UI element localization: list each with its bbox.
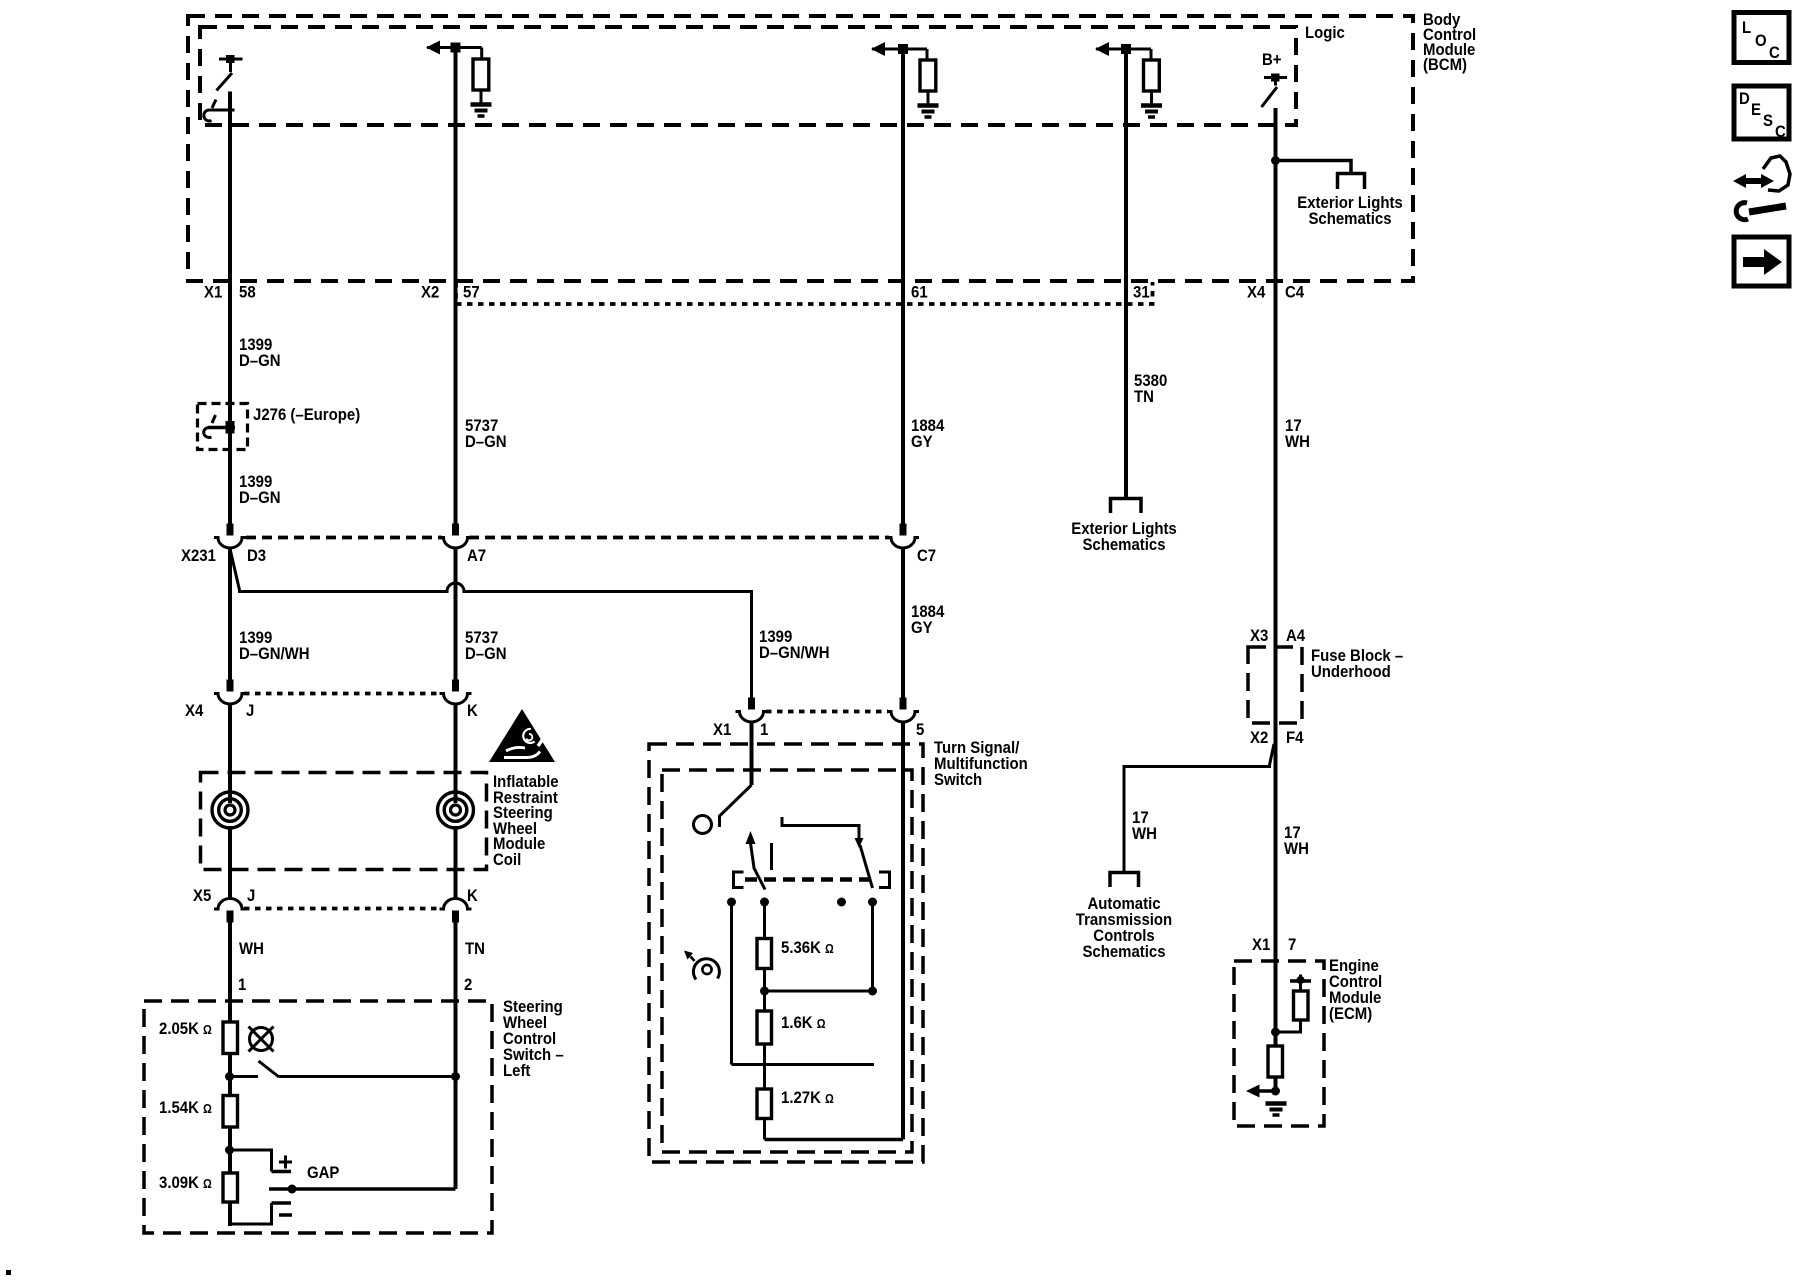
svg-text:(ECM): (ECM) — [1329, 1005, 1372, 1023]
svg-text:D–GN/WH: D–GN/WH — [239, 645, 310, 663]
svg-text:1: 1 — [760, 721, 768, 739]
right switch blade — [860, 845, 873, 888]
J276 splice dashed box — [198, 404, 248, 450]
connector X4 pin K — [440, 680, 472, 705]
svg-text:Underhood: Underhood — [1311, 663, 1391, 681]
label Automatic Transmission Controls Schematics — [1076, 895, 1172, 961]
ground symbol (col 3) — [918, 106, 939, 118]
svg-text:Schematics: Schematics — [1308, 210, 1391, 228]
steering wheel control switch dashed box — [144, 1001, 492, 1233]
wire 5.36K to tap — [763, 969, 766, 1012]
label Exterior Lights Schematics (top) — [1297, 194, 1403, 228]
svg-text:Logic: Logic — [1305, 24, 1345, 42]
GAP positive plate — [272, 1170, 292, 1174]
fuse block underhood dashed box — [1248, 647, 1302, 723]
label Fuse Block - Underhood — [1311, 647, 1403, 681]
ECM pull-up resistor — [1294, 991, 1309, 1020]
wire tap to right vertical — [765, 990, 873, 993]
label 17 WH branch — [1132, 809, 1157, 843]
wire pull-up resistor leads — [1276, 981, 1301, 1032]
svg-text:7: 7 — [1288, 936, 1296, 954]
pin label X1 7 (ECM) — [1252, 936, 1296, 954]
GAP negative plate — [272, 1201, 292, 1205]
BCM label — [1423, 11, 1476, 74]
ECM ground arrow — [1246, 1085, 1276, 1098]
icon box arrow — [1734, 237, 1789, 286]
svg-text:A4: A4 — [1286, 627, 1305, 645]
svg-text:J: J — [246, 702, 254, 720]
wire GAP negative lead — [230, 1203, 272, 1224]
svg-text:1.27K Ω: 1.27K Ω — [781, 1089, 834, 1107]
svg-text:(BCM): (BCM) — [1423, 56, 1467, 74]
wire col4 B+ vertical — [1274, 108, 1278, 1091]
icon box LOC — [1734, 13, 1789, 63]
ground symbol (col 2) — [471, 105, 492, 117]
connector X1 dotted line (turn signal) — [766, 710, 888, 714]
Body Control Module (BCM) outer dashed box — [188, 16, 1413, 281]
pull-down resistor (col 2) — [473, 59, 489, 90]
label circuit 1884 GY lower — [911, 603, 944, 637]
svg-text:5.36K Ω: 5.36K Ω — [781, 939, 834, 957]
connector X231 pin A7 — [440, 524, 472, 549]
resistor 1.54K — [223, 1096, 238, 1128]
wire 1.6K to 1.27K — [763, 1044, 766, 1089]
wire col2 coil to X5 — [454, 826, 458, 898]
right switch lead from pin1 circuit — [782, 817, 859, 840]
svg-text:X2: X2 — [421, 284, 439, 302]
wire col3 C7 to turn signal pin 5 — [901, 549, 905, 698]
svg-text:C: C — [1775, 123, 1786, 141]
svg-text:Schematics: Schematics — [1082, 536, 1165, 554]
node junction col4 to exterior lights branch — [1271, 156, 1280, 165]
lamp symbol — [249, 1027, 274, 1052]
resistor 5.36K — [757, 939, 772, 969]
wire col3 vertical upper — [901, 49, 905, 524]
connector X4 pin J — [214, 680, 246, 705]
svg-text:J276 (–Europe): J276 (–Europe) — [253, 406, 360, 424]
svg-text:B+: B+ — [1262, 51, 1282, 69]
svg-text:GAP: GAP — [307, 1164, 340, 1182]
pin label X2 F4 — [1250, 729, 1304, 747]
svg-text:58: 58 — [239, 284, 256, 302]
right switch arrow — [855, 838, 864, 848]
off-page connector exterior lights (top) — [1338, 174, 1365, 190]
svg-text:X1: X1 — [1252, 936, 1270, 954]
icon box DESC — [1734, 86, 1789, 141]
stalk contact circle — [694, 816, 712, 834]
Logic inner dashed box — [200, 27, 1296, 125]
label Engine Control Module (ECM) — [1329, 957, 1382, 1023]
svg-text:X1: X1 — [713, 721, 731, 739]
label circuit 5380 TN — [1134, 372, 1167, 406]
svg-text:Coil: Coil — [493, 851, 521, 869]
label circuit 17 WH upper — [1285, 417, 1310, 451]
node contact dot 1 — [727, 898, 736, 907]
svg-text:E: E — [1751, 101, 1761, 119]
pull-down resistor (col 31) — [1144, 60, 1160, 91]
node wiper dot — [288, 1185, 297, 1194]
label Turn Signal/Multifunction Switch — [934, 739, 1028, 789]
resistor 2.05K — [223, 1022, 238, 1054]
resistor 1.6K — [757, 1011, 772, 1044]
wire switch to col2 — [279, 1075, 456, 1078]
mechanical link bracket left — [734, 872, 744, 888]
label Inflatable Restraint Steering Wheel Module Coil — [493, 773, 559, 869]
inflatable restraint coil dashed box — [201, 773, 487, 870]
label circuit 5737 D-GN upper — [465, 417, 507, 451]
page corner dot — [6, 1270, 11, 1275]
wire 1.27K to bottom rail — [763, 1119, 766, 1140]
svg-text:A7: A7 — [467, 547, 486, 565]
wire branch D3 to turn signal pin 1 with hop over col2 — [231, 551, 752, 698]
svg-text:GY: GY — [911, 433, 933, 451]
svg-text:31: 31 — [1133, 284, 1150, 302]
mechanical link bracket right — [879, 872, 890, 888]
svg-text:K: K — [467, 702, 478, 720]
svg-text:Schematics: Schematics — [1082, 943, 1165, 961]
svg-text:WH: WH — [239, 940, 264, 958]
resistor 1.27K — [757, 1089, 772, 1119]
wire turn signal pin5 into box — [901, 722, 905, 1140]
pin label X1 58 — [204, 284, 256, 302]
svg-text:1: 1 — [238, 976, 246, 994]
wire col2 X5 to switch box — [454, 923, 458, 1077]
node ECM junction — [1271, 1028, 1280, 1037]
wire col1 X5 to switch box — [228, 923, 232, 1023]
connector X5 dotted line — [244, 907, 442, 911]
switch contact stub — [230, 1075, 259, 1078]
logic pull-down arrow line (col 3) — [871, 42, 927, 61]
pin label X2 57 — [421, 284, 480, 302]
connector X4 dotted line — [244, 692, 442, 696]
svg-text:J: J — [247, 887, 255, 905]
svg-text:WH: WH — [1285, 433, 1310, 451]
ECM ground symbol — [1266, 1104, 1287, 1116]
svg-text:S: S — [1763, 112, 1773, 130]
svg-text:X4: X4 — [185, 702, 203, 720]
coil spiral left — [212, 792, 248, 828]
connector X231 pin C7 — [887, 524, 919, 549]
label circuit 5737 D-GN lower — [465, 629, 507, 663]
connector group dotted outline pins 57-31 — [456, 282, 1153, 304]
svg-text:K: K — [467, 887, 478, 905]
left switch arrow — [746, 831, 756, 844]
wire col1 to GAP junction — [228, 1127, 232, 1173]
wire branch to automatic transmission — [1124, 744, 1274, 872]
label Steering Wheel Control Switch - Left — [503, 998, 564, 1080]
J276 splice symbol — [204, 415, 235, 437]
BCM output driver switch (col 1) — [204, 55, 243, 121]
node ECM ground junction — [1271, 1087, 1280, 1096]
turn signal stalk blade — [720, 785, 752, 827]
svg-text:C7: C7 — [917, 547, 936, 565]
label circuit 1399 D-GN upper — [239, 336, 281, 370]
svg-text:GY: GY — [911, 619, 933, 637]
node switch junction col2 — [451, 1072, 460, 1081]
svg-text:X5: X5 — [193, 887, 211, 905]
node switch junction col1 — [225, 1072, 234, 1081]
svg-text:Switch: Switch — [934, 771, 982, 789]
svg-text:D–GN/WH: D–GN/WH — [759, 644, 830, 662]
svg-text:57: 57 — [463, 284, 480, 302]
svg-text:O: O — [1755, 32, 1767, 50]
svg-text:3.09K Ω: 3.09K Ω — [159, 1174, 212, 1192]
left switch blade — [751, 843, 766, 890]
GAP wiper lead to col2 — [269, 1187, 456, 1191]
wire left tap horizontal — [732, 1063, 875, 1066]
icon special tools — [1733, 156, 1790, 220]
off-page connector exterior lights (col 31) — [1111, 499, 1142, 514]
wire col1 between resistors — [228, 1054, 232, 1096]
minus sign — [279, 1213, 292, 1217]
resistor lead to ground (col 2) — [480, 90, 483, 103]
label circuit 1884 GY upper — [911, 417, 944, 451]
svg-text:61: 61 — [911, 284, 928, 302]
svg-text:D–GN: D–GN — [239, 489, 281, 507]
wire col1 X4 to coil — [228, 704, 232, 804]
node tap dot middle — [760, 987, 769, 996]
off-page connector automatic transmission — [1110, 873, 1139, 888]
B+ feed switch (col 4) — [1262, 74, 1288, 108]
svg-text:X1: X1 — [204, 284, 222, 302]
wire GAP positive lead — [230, 1150, 272, 1172]
wire col 31 vertical — [1124, 49, 1128, 498]
svg-text:Left: Left — [503, 1062, 531, 1080]
wire col2 vertical upper — [454, 48, 458, 524]
ECM internal supply terminal — [1290, 975, 1311, 985]
svg-text:L: L — [1742, 19, 1751, 37]
svg-text:X231: X231 — [181, 547, 216, 565]
wire col1 BCM output vertical — [228, 92, 232, 524]
turn signal multifunction switch outer dashed box — [649, 744, 923, 1162]
wire col2 A7 to X4 — [454, 549, 458, 680]
pin label X4 C4 — [1247, 284, 1304, 302]
label circuit 1399 D-GN/WH col1 — [239, 629, 310, 663]
label 17 WH col4 — [1284, 824, 1309, 858]
svg-text:WH: WH — [1132, 825, 1157, 843]
svg-text:WH: WH — [1284, 840, 1309, 858]
svg-text:F4: F4 — [1286, 729, 1304, 747]
ground symbol (col 31) — [1141, 106, 1162, 118]
wire turn signal pin1 into box — [750, 722, 754, 785]
connector X231 dashed line — [246, 536, 889, 540]
wire bottom rail to pin5 — [765, 1138, 904, 1142]
svg-text:D–GN: D–GN — [239, 352, 281, 370]
resistor 3.09K — [223, 1173, 238, 1202]
svg-text:D–GN: D–GN — [465, 433, 507, 451]
switch blade — [259, 1061, 280, 1077]
logic pull-down arrow line (col 2) — [426, 41, 482, 61]
wire right vertical — [871, 902, 874, 991]
svg-text:5: 5 — [916, 721, 924, 739]
svg-text:1.54K Ω: 1.54K Ω — [159, 1099, 212, 1117]
turn signal multifunction switch inner dashed box — [662, 770, 912, 1152]
rotary detent icon — [684, 951, 719, 980]
svg-text:C4: C4 — [1285, 284, 1304, 302]
pin label X3 A4 — [1250, 627, 1305, 645]
svg-text:TN: TN — [465, 940, 485, 958]
connector X5 pin K — [440, 899, 472, 923]
svg-text:2: 2 — [464, 976, 472, 994]
node contact dot 4 — [868, 898, 877, 907]
svg-text:2.05K Ω: 2.05K Ω — [159, 1020, 212, 1038]
svg-text:D–GN: D–GN — [465, 645, 507, 663]
coil spiral right — [438, 792, 474, 828]
node GAP junction — [225, 1146, 234, 1155]
wire col2 lower vertical — [454, 1077, 458, 1190]
wire branch to exterior lights schematics — [1276, 161, 1352, 173]
engine control module dashed box — [1234, 961, 1324, 1126]
wire resistor chain upper — [763, 902, 766, 939]
wire col1 resistor to bottom — [228, 1202, 232, 1226]
label Exterior Lights Schematics (col 31) — [1071, 520, 1177, 554]
svg-text:TN: TN — [1134, 388, 1154, 406]
wire col2 X4 to coil — [454, 704, 458, 804]
node tap dot right — [868, 987, 877, 996]
svg-text:1.6K Ω: 1.6K Ω — [781, 1014, 826, 1032]
node contact dot 3 — [837, 898, 846, 907]
connector X5 pin J — [214, 899, 246, 923]
SRS warning triangle — [489, 709, 555, 762]
pull-down resistor (col 3) — [920, 60, 936, 91]
wire left tap vertical — [730, 902, 733, 1065]
svg-text:X2: X2 — [1250, 729, 1268, 747]
resistor lead to ground (col 3) — [927, 91, 930, 104]
svg-text:D: D — [1739, 90, 1750, 108]
mechanical link dashed line — [745, 877, 878, 882]
plus sign — [279, 1156, 292, 1169]
svg-text:X4: X4 — [1247, 284, 1265, 302]
logic pull-down arrow line (col 31) — [1095, 42, 1151, 61]
connector X231 pin D3 — [214, 524, 246, 549]
wire col1 coil to X5 — [228, 826, 232, 898]
resistor lead to ground (col 31) — [1150, 91, 1153, 104]
wire col1 X231 to X4 — [228, 549, 232, 680]
label circuit 1399 D-GN/WH branch — [759, 628, 830, 662]
connector X1 pin 5 — [887, 698, 919, 723]
svg-text:D3: D3 — [247, 547, 266, 565]
svg-text:C: C — [1769, 44, 1780, 62]
ECM series resistor — [1268, 1046, 1283, 1077]
left stationary contact tick — [770, 843, 773, 870]
node contact dot 2 — [760, 898, 769, 907]
label circuit 1399 D-GN lower — [239, 473, 281, 507]
svg-text:X3: X3 — [1250, 627, 1268, 645]
connector X1 pin 1 — [736, 698, 768, 723]
